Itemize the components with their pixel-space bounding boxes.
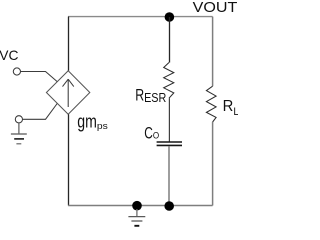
- wire VC terminal to source upper-left edge: [21, 72, 58, 82]
- wire RESR to capacitor CO: [168, 98, 170, 142]
- current source arrow: [63, 79, 74, 107]
- wire source bottom to bottom rail: [68, 114, 70, 205]
- wire left vertical from top wire to source: [68, 17, 70, 71]
- terminal circle lower (reference): [15, 116, 22, 123]
- terminal circle VC: [13, 68, 20, 75]
- svg-text:R: R: [223, 98, 234, 115]
- wire lower terminal to ground: [18, 123, 20, 133]
- wire top net VOUT: [68, 16, 213, 18]
- label RESR: [135, 87, 166, 106]
- node VOUT label: [193, 0, 238, 16]
- wire VOUT dot down to resistor RESR: [169, 17, 171, 63]
- wire bottom rail: [68, 205, 213, 207]
- svg-text:gm: gm: [77, 112, 97, 132]
- svg-text:L: L: [233, 106, 238, 118]
- label CO: [144, 124, 159, 143]
- svg-text:VC: VC: [0, 47, 19, 63]
- label RL: [223, 98, 239, 118]
- svg-text:ESR: ESR: [144, 91, 166, 105]
- ground bottom: [128, 217, 145, 226]
- wire ground dot to ground symbol: [136, 209, 138, 216]
- svg-text:C: C: [144, 124, 153, 143]
- resistor RL: [206, 86, 216, 122]
- resistor RESR: [164, 63, 174, 99]
- wire right branch top (VOUT to RL): [212, 17, 214, 87]
- wire lower terminal to source lower-left edge: [23, 104, 58, 120]
- junction dot CO bottom: [164, 201, 174, 211]
- svg-text:ps: ps: [97, 121, 108, 131]
- controlled current source gm_ps diamond: [46, 71, 89, 115]
- capacitor CO: [157, 142, 182, 145]
- wire CO to bottom rail: [168, 146, 170, 205]
- junction dot VOUT node: [165, 12, 175, 22]
- label VC: [0, 47, 19, 63]
- junction dot ground node: [132, 201, 142, 211]
- svg-text:R: R: [135, 87, 144, 105]
- ground left: [11, 134, 27, 144]
- svg-text:VOUT: VOUT: [193, 0, 238, 16]
- wire RL to bottom rail: [212, 122, 214, 206]
- label gm_ps: [77, 112, 108, 132]
- svg-text:O: O: [153, 131, 159, 141]
